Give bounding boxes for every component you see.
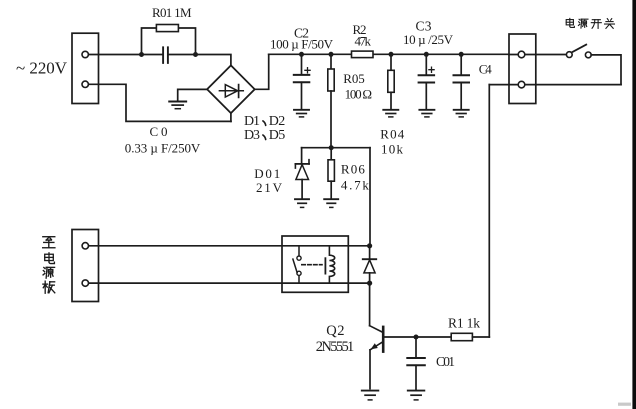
svg-text:D01: D01 [254, 166, 280, 181]
capacitor C4 [460, 54, 462, 74]
relay coil core bar [324, 258, 326, 273]
ground (C2) [294, 109, 309, 111]
capacitor C3 electrolytic [425, 54, 427, 74]
node dot C2 [299, 52, 304, 57]
svg-text:D2: D2 [269, 114, 286, 129]
flyback diode [369, 246, 371, 283]
node dot R05 [329, 52, 334, 57]
svg-text:10 µ /25V: 10 µ /25V [403, 32, 454, 47]
svg-text:10k: 10k [381, 142, 404, 157]
node line D01/R06 [302, 147, 370, 149]
svg-text:4.7k: 4.7k [341, 178, 370, 193]
bridge inner diode [219, 90, 243, 92]
relay blade [293, 259, 297, 272]
node dot base [414, 335, 419, 340]
svg-text:C3: C3 [416, 18, 432, 33]
relay dashed link [302, 264, 322, 266]
node dot [139, 52, 144, 57]
ground (C4) [454, 109, 469, 111]
node dot [193, 52, 198, 57]
svg-text:D5: D5 [269, 128, 286, 143]
node dot R04 [389, 52, 394, 57]
svg-text:100 µ F/50V: 100 µ F/50V [270, 36, 334, 51]
ground (C01) [408, 390, 425, 392]
main +V rail [269, 53, 509, 55]
label 至电源板 [43, 237, 55, 248]
ground (R06) [324, 198, 338, 200]
node dot C3 [424, 52, 429, 57]
svg-text:C01: C01 [436, 354, 455, 369]
border frame right bar [632, 0, 636, 409]
svg-text:100 Ω: 100 Ω [345, 87, 373, 102]
terminal pin circle [518, 81, 525, 88]
svg-text:R01 1M: R01 1M [152, 5, 192, 20]
svg-text:2N5551: 2N5551 [316, 339, 355, 355]
relay bottom rail wire [88, 282, 369, 284]
resistor R04 [390, 54, 392, 70]
svg-text:R05: R05 [343, 71, 365, 86]
zener D01 [301, 148, 303, 164]
node dot [367, 281, 372, 286]
connector J1 (~220V input) [72, 33, 99, 103]
ground (bridge) [169, 101, 186, 103]
connector J2 (output to switch) [509, 34, 536, 104]
svg-text:R04: R04 [380, 126, 405, 141]
emitter arrow [371, 343, 378, 349]
capacitor C2 electrolytic [301, 54, 303, 74]
svg-text:D1: D1 [244, 114, 260, 129]
resistor R1 [416, 336, 451, 338]
capacitor C01 [415, 337, 417, 357]
bridge AC ground lead [178, 89, 207, 101]
power switch S1 [572, 45, 586, 53]
ground (Q2 emitter) [362, 390, 379, 392]
relay top rail wire [88, 245, 369, 247]
svg-text:47k: 47k [355, 34, 372, 49]
terminal pin circle [82, 81, 88, 87]
switch return wire [591, 55, 621, 85]
bridge DC output lead up to rail [255, 54, 269, 89]
label 电源开关 [566, 18, 574, 27]
svg-text:21V: 21V [256, 180, 283, 195]
relay coil [329, 246, 334, 283]
relay K1 box [282, 236, 348, 292]
svg-text:0.33 µ F/250V: 0.33 µ F/250V [125, 140, 201, 155]
ground (R04) [383, 109, 398, 111]
svg-text:D3: D3 [244, 128, 260, 143]
node dot C4 [459, 52, 464, 57]
bridge bottom lead [230, 113, 232, 121]
ground (D01) [295, 198, 309, 200]
relay contact stem + circles [298, 246, 300, 283]
svg-text:C4: C4 [479, 62, 493, 77]
svg-text:Q2: Q2 [326, 323, 344, 339]
wire J1 pin2 down-around to bridge bottom [88, 84, 231, 121]
resistor R05 [330, 54, 332, 69]
transistor Q2 [369, 283, 371, 326]
terminal pin circle [82, 280, 88, 286]
terminal pin circle [82, 243, 88, 249]
terminal pin circle [82, 51, 88, 57]
resistor R01 loop [142, 28, 196, 55]
wire top rail from J1 to bridge [88, 55, 231, 66]
bridge rectifier D1 D2 D3 D5 diamond [207, 65, 255, 113]
ground (C3) [419, 109, 434, 111]
terminal pin circle [518, 51, 525, 58]
node dot [329, 145, 334, 150]
svg-text:R06: R06 [341, 161, 366, 176]
svg-text:~ 220V: ~ 220V [16, 59, 68, 78]
long wire from J2 pin2 down to R1 [488, 85, 490, 337]
resistor R06 [330, 148, 332, 160]
node dot [367, 243, 372, 248]
svg-text:R1 1k: R1 1k [448, 315, 480, 330]
smudge bottom right [618, 403, 631, 406]
resistor R2 in line [352, 51, 374, 58]
capacitor C0 plates [163, 47, 168, 63]
connector J3 (to power board) [72, 230, 99, 302]
